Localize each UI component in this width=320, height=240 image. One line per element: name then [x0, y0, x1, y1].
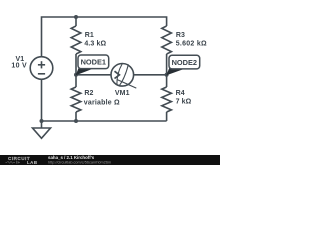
wire middle left (node to VM1)	[76, 74, 111, 76]
node dot NODE1 junction	[74, 73, 78, 77]
node dot ground junction	[40, 119, 44, 123]
wire R2 top lead	[75, 75, 77, 87]
wire R4 bottom lead	[166, 112, 168, 121]
svg-text:7 kΩ: 7 kΩ	[176, 99, 192, 106]
voltmeter VM1	[111, 64, 134, 87]
svg-text:R2: R2	[84, 90, 93, 97]
wire R3 bottom lead	[166, 54, 168, 75]
svg-text:4.3 kΩ: 4.3 kΩ	[84, 41, 106, 48]
wire top rail with V1 riser and R3 top lead	[42, 17, 167, 57]
wire R1 top lead	[75, 17, 77, 26]
watermark bar	[0, 155, 220, 165]
wire middle right (VM1 to node)	[134, 74, 167, 76]
wire R1 bottom lead to node	[75, 54, 77, 75]
ground	[41, 121, 43, 128]
svg-text:variable Ω: variable Ω	[84, 99, 120, 106]
svg-text:10 V: 10 V	[11, 63, 27, 70]
node flag NODE2	[166, 55, 200, 75]
node flag NODE1	[76, 55, 109, 75]
svg-text:NODE2: NODE2	[172, 58, 197, 67]
svg-text:NODE1: NODE1	[81, 58, 106, 67]
wire R4 top lead	[166, 75, 168, 87]
svg-text:R4: R4	[176, 90, 185, 97]
resistor R2	[71, 87, 81, 112]
node dot NODE2 junction	[165, 73, 169, 77]
resistor R1	[71, 26, 81, 54]
resistor R4	[162, 87, 172, 112]
svg-text:saha_s / 2.1 Kirchoff's: saha_s / 2.1 Kirchoff's	[48, 155, 95, 160]
svg-text:http://circuitlab.com/c/56canr: http://circuitlab.com/c/56canrh0m26m	[48, 161, 111, 165]
node dot top R1	[74, 15, 78, 19]
voltage source V1	[30, 57, 53, 80]
wire bottom rail	[42, 120, 167, 122]
resistor R3	[162, 26, 172, 54]
svg-text:LAB: LAB	[27, 160, 38, 165]
svg-text:5.602 kΩ: 5.602 kΩ	[176, 41, 207, 48]
wire V1 bottom lead	[41, 80, 43, 122]
wire R2 bottom lead	[75, 112, 77, 121]
node dot R2 bottom	[74, 119, 78, 123]
svg-text:R3: R3	[176, 32, 185, 39]
svg-text:R1: R1	[85, 32, 94, 39]
svg-text:VM1: VM1	[115, 90, 130, 97]
